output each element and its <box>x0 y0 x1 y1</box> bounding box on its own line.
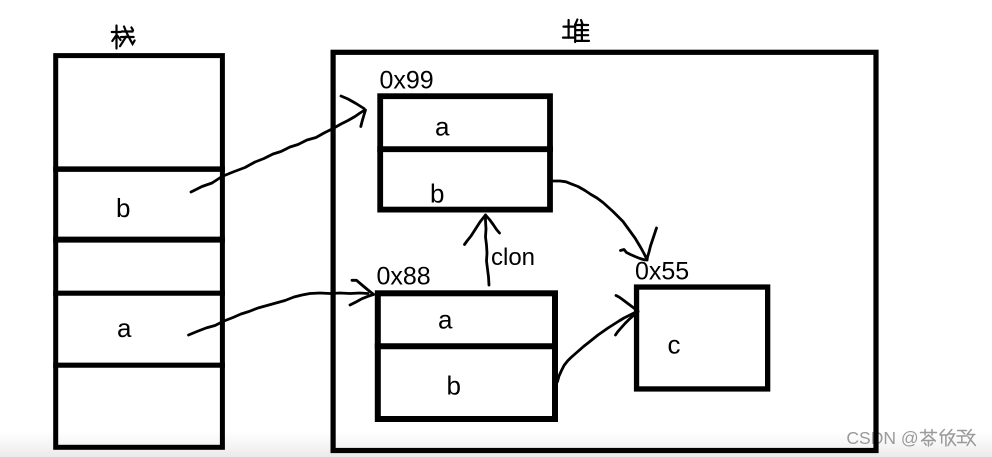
watermark glyph 1 <box>921 432 937 434</box>
watermark glyph 3 <box>958 430 967 432</box>
stack label 栈 <box>112 26 135 49</box>
stack box <box>56 56 223 448</box>
stack divider 2 <box>53 237 225 243</box>
arrow stack a to 0x88 shaft <box>189 293 369 335</box>
arrow 0x88 b to 0x55 head <box>616 296 638 312</box>
0x99 object box <box>380 96 550 209</box>
arrow 0x99 b to 0x55 head <box>647 228 657 260</box>
svg-text:0x88: 0x88 <box>377 263 431 291</box>
svg-text:CSDN @: CSDN @ <box>846 428 918 448</box>
svg-text:a: a <box>435 112 450 142</box>
arrow 0x88 b to 0x55 shaft <box>556 312 638 385</box>
watermark glyph 2 <box>940 430 944 435</box>
heap box <box>333 52 876 450</box>
stack divider 1 <box>53 166 225 172</box>
0x88 object box <box>378 293 555 419</box>
svg-text:b: b <box>116 193 130 223</box>
0x55 object box <box>637 287 768 389</box>
svg-text:0x99: 0x99 <box>380 67 434 95</box>
svg-text:b: b <box>447 371 461 401</box>
arrow stack b to 0x99 shaft <box>191 111 364 193</box>
svg-text:0x55: 0x55 <box>635 258 689 286</box>
arrow 0x99 b to 0x55 shaft <box>553 181 647 260</box>
clon arrow head <box>465 215 486 245</box>
svg-text:a: a <box>438 305 453 335</box>
0x88 divider <box>375 343 558 349</box>
svg-text:c: c <box>668 330 681 360</box>
0x99 divider <box>377 146 553 152</box>
svg-text:a: a <box>117 313 132 343</box>
stack divider 4 <box>53 363 225 368</box>
heap label 堆 <box>563 20 589 43</box>
svg-text:b: b <box>430 179 444 209</box>
clon arrow shaft <box>486 216 490 285</box>
arrow stack b to 0x99 head <box>341 96 364 109</box>
svg-text:clon: clon <box>491 244 535 271</box>
stack divider 3 <box>53 291 225 296</box>
arrow stack a to 0x88 head <box>352 280 374 294</box>
